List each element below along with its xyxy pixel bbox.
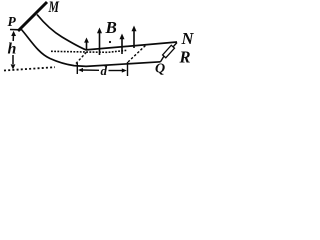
mid dotted line bbox=[51, 50, 127, 52]
incline MP bbox=[18, 2, 47, 31]
left dashed plane edge bbox=[76, 51, 88, 64]
resistor R body bbox=[163, 45, 175, 58]
field arrow 3 bbox=[121, 38, 123, 54]
d dimension right arrow bbox=[109, 70, 124, 72]
stray dot under B bbox=[109, 41, 111, 43]
svg-text:N: N bbox=[181, 29, 195, 48]
svg-text:d: d bbox=[101, 63, 108, 78]
right edge N to resistor bbox=[173, 43, 177, 48]
svg-text:Q: Q bbox=[155, 61, 165, 76]
h dimension arrow down bbox=[12, 55, 14, 64]
h dimension arrow up bbox=[11, 31, 16, 36]
svg-text:R: R bbox=[179, 48, 191, 67]
svg-text:M: M bbox=[48, 0, 60, 16]
field arrow 2 bbox=[99, 32, 101, 55]
field arrow 4 bbox=[133, 30, 135, 48]
ground dotted line bbox=[4, 67, 55, 70]
d dimension left arrow bbox=[78, 68, 83, 72]
svg-text:P: P bbox=[8, 14, 17, 29]
d dimension right tick bbox=[127, 62, 129, 76]
far curved rail + back rail to N bbox=[37, 15, 177, 50]
svg-text:h: h bbox=[8, 41, 17, 58]
right dashed field boundary bbox=[128, 45, 147, 63]
field arrow 1 bbox=[86, 41, 88, 50]
wire resistor to Q bbox=[161, 56, 164, 61]
d dimension left tick bbox=[76, 63, 78, 74]
tick at P bbox=[10, 29, 21, 31]
svg-text:B: B bbox=[105, 18, 117, 37]
near curved rail + front rail to Q bbox=[21, 29, 161, 66]
